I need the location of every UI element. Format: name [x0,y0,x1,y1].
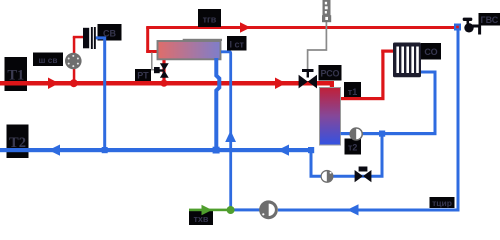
svg-text:Т2: Т2 [9,135,26,151]
svg-text:СВ: СВ [103,28,116,38]
label box GVS [479,13,500,26]
wire: bottom cold segment pump to node [232,208,260,211]
svg-text:I ст: I ст [229,39,244,49]
storage tank [320,88,341,146]
label box T1 [5,57,28,91]
arrow on T1 line right [275,78,286,90]
svg-text:РТ: РТ [137,70,149,80]
wire: top hot water line tgv [146,26,454,29]
svg-text:Т1: Т1 [7,68,24,84]
radiator CO [393,43,421,78]
svg-text:ГВС: ГВС [481,15,499,25]
label box t2 [345,139,362,155]
svg-text:тцир: тцир [432,198,452,208]
wire: T2 corner down to bypass [311,134,382,177]
label box tcir [430,197,455,208]
wire: radiator return elbow [421,72,435,133]
arrow on T1 line left [48,78,59,90]
node on T1 at hx drop [160,80,167,87]
wire: CB meter blue elbow riser [96,38,105,150]
node green junction [227,206,235,214]
arrow on circulation bottom [347,204,359,215]
wire: green cold water inlet [189,209,231,212]
svg-text:тгв: тгв [203,14,217,24]
wire: riser to meter [73,37,76,83]
svg-text:ш св: ш св [39,55,58,65]
node bypass/heating return [379,131,385,137]
arrow on T2 left [49,145,61,156]
wire: hx inlet elbow [146,27,149,53]
label box sh sv [33,53,63,67]
label box t st [227,36,247,51]
label box CO [421,43,441,60]
valve RT (on hx drop) [160,63,169,70]
svg-text:т2: т2 [348,143,357,153]
wire: main supply T1 red line [0,81,332,86]
control line rt to valve [152,53,155,70]
wire: circulation riser [278,27,458,210]
wire: T2 return blue line [0,148,313,152]
wire: hx return riser with hop [216,58,219,148]
node top right red/blue junction [454,24,461,31]
thermometer [323,0,331,16]
pump P3 (bypass, points left) [321,170,334,183]
valve RSO (on T1 line) [299,75,308,89]
arrow on T2 mid [278,145,290,156]
node T2 corner [308,147,314,153]
svg-text:СО: СО [424,47,437,57]
wire: heating return line [341,132,437,135]
label box RSO [319,65,342,81]
label box tgv (over red line) [198,9,221,27]
node T2/CB riser [102,147,108,153]
label box CB (water meter) [98,24,122,41]
strainer circle [65,53,82,70]
tap GVS [463,18,473,21]
label box t1 [344,82,361,100]
arrow green [202,205,213,215]
label box t xv [189,211,213,225]
arrow on top line [240,22,251,32]
control line from thermometer to RSO valve [308,21,327,70]
wire: elbow into tank top [330,81,334,89]
label box T2 [7,125,29,159]
pump P1 (heating) [349,127,363,141]
svg-text:тхв: тхв [194,214,209,224]
valve on bypass [355,170,363,182]
arrow up on cold riser [225,131,236,143]
node on T1 at meter riser [70,79,78,87]
heat exchanger U1 [158,41,221,59]
wire: hx drop pipe [162,58,165,83]
node T2/hx riser [213,147,220,154]
wire: t1 heating supply [341,97,385,100]
wire: cold water riser from exchanger [221,52,231,208]
label box rt [135,69,151,81]
svg-text:т1: т1 [348,87,357,97]
svg-text:РСО: РСО [320,69,339,79]
pump P2 (cold water) [259,200,278,219]
water meter CB bars [83,28,89,49]
